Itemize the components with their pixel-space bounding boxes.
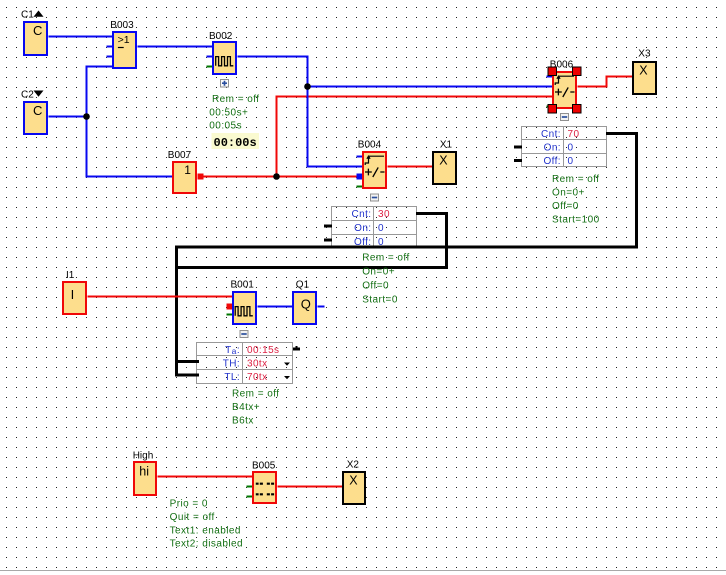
current value highlight B002 [212,133,260,149]
svg-text:Q: Q [301,297,311,312]
svg-text:30tx: 30tx [247,358,268,369]
svg-text:I: I [71,287,75,302]
svg-text:X3: X3 [638,49,651,60]
wire node A up to B003 input 4 [87,67,113,117]
svg-text:0: 0 [568,156,574,167]
svg-text:B007: B007 [168,150,192,161]
svg-text:X: X [439,154,448,168]
svg-text:I1: I1 [66,270,75,281]
svg-text:C1: C1 [21,9,34,20]
svg-text:On=0+: On=0+ [552,187,585,198]
svg-text:B6tx: B6tx [232,415,254,426]
svg-text:B001: B001 [231,280,255,291]
annotation B002 parameters [209,94,259,132]
svg-text:B002: B002 [209,31,233,42]
reference stub B006 table Off row [514,159,522,162]
reference stub B001 table Ta row [293,346,300,349]
expand button B002 [221,80,229,88]
reference line branch to B001 TH row [177,360,200,363]
parameter table B001 (Ta/TH/TL) [197,343,293,384]
selection handle B006 top-left [548,67,557,76]
pulse generator B001 [231,280,257,325]
svg-text:C: C [33,23,42,38]
svg-text:TL:: TL: [224,372,240,383]
constant High (hi) [133,450,156,495]
node B junction [304,83,311,90]
marker B007 output (red) [198,174,204,180]
svg-text:B4tx+: B4tx+ [232,402,260,413]
svg-text:00:50s+: 00:50s+ [209,108,248,119]
svg-text:B005: B005 [252,461,276,472]
svg-text:Prio = 0: Prio = 0 [170,499,208,510]
wire B005 output to X2 [278,486,343,488]
svg-text:hi: hi [139,464,149,478]
up-down counter B006 (selected) [550,60,576,109]
svg-text:00:00s: 00:00s [214,136,257,150]
selection handle B006 bottom-left [548,105,557,114]
svg-text:Rem = off: Rem = off [362,253,410,264]
stub B002 input 2 [207,56,213,58]
input I1 [63,270,86,314]
marker B001 input 2 (red) [227,304,234,310]
wire B001 output to Q1 [258,306,293,308]
stub B003 input 2 [107,46,113,48]
node A junction [83,113,90,120]
wire B004 output to X1 [388,166,433,168]
svg-text:Cnt:: Cnt: [541,129,561,140]
wire Q1 output stub [318,306,325,308]
reference stub B004 table Off row [324,239,332,242]
reference stub B004 table On row [324,225,332,228]
svg-text:1: 1 [184,163,191,177]
selection handle B006 bottom-right [573,105,582,114]
stub B004 input 4 (parameter) [357,186,363,188]
parameter table B004 (Cnt/On/Off) [332,207,417,248]
svg-text:On:: On: [354,223,371,234]
collapse button B001 [240,331,248,338]
svg-text:X1: X1 [440,139,453,150]
open connector X2 [343,460,365,505]
svg-text:70: 70 [568,129,580,140]
reference line B006 Cnt to B001 TL [177,134,637,376]
open connector X1 [433,139,456,184]
svg-text:00:05s: 00:05s [209,121,242,132]
annotation B001 parameters [232,389,280,427]
collapse button B006 [561,114,569,121]
svg-text:B004: B004 [358,139,382,150]
annotation B004 parameters [362,253,410,306]
svg-text:Text1: enabled: Text1: enabled [170,525,241,536]
svg-text:Start=100: Start=100 [552,214,600,225]
wire C2 to node A [49,116,87,118]
wire C1 to B003 input 1 [49,36,113,38]
svg-text:Rem = off: Rem = off [232,389,280,400]
wire node B down to B004 input 2 [308,87,363,167]
NOT gate B007 [168,150,196,193]
wire B002 output to node B [238,57,308,87]
wire hi to B005 input 1 [158,476,253,478]
svg-text:00:15s: 00:15s [247,345,279,356]
svg-text:30: 30 [378,209,390,220]
wire B007 output to node C to B004 input 3 [204,176,357,178]
dropdown arrow TH row [284,363,290,366]
svg-text:Q1: Q1 [296,280,310,291]
svg-text:Rem = off: Rem = off [212,94,260,105]
open connector X3 [633,49,656,95]
svg-text:Off:: Off: [543,156,561,167]
svg-text:Cnt:: Cnt: [352,209,372,220]
annotation B005 parameters [170,499,243,550]
stub B001 input 3 (parameter) [227,314,233,316]
svg-text:Quit = off: Quit = off [170,512,215,523]
reference line B004 Cnt to B001 TH [177,214,447,268]
svg-text:70tx: 70tx [247,372,268,383]
svg-text:0: 0 [378,223,384,234]
stub B006 input 4 (parameter) [547,106,553,108]
wire I1 to B001 input 1 [88,296,233,298]
svg-text:High: High [133,450,154,461]
input C1 cursor key block [21,9,47,55]
input C2 cursor key block [21,89,47,134]
OR gate B003 [110,20,136,68]
parameter table B006 (Cnt/On/Off) [522,127,607,167]
svg-text:Start=0: Start=0 [362,294,398,305]
wire B006 output to X3 [578,77,633,87]
svg-text:TH:: TH: [223,358,240,369]
svg-text:X2: X2 [347,460,360,471]
svg-text:Off=0: Off=0 [552,201,579,212]
reference stub B006 table On row [514,146,522,149]
up-down counter B004 [358,139,386,188]
selection handle B006 top-right [573,67,582,76]
svg-text:0: 0 [568,142,574,153]
dropdown arrow TL row [284,376,290,379]
collapse button B004 [371,194,379,201]
svg-text:C: C [33,103,42,118]
message text block B005 [252,461,276,503]
svg-text:On:: On: [544,142,561,153]
svg-text:X: X [639,64,648,78]
wire node C up to B006 input 3 [277,97,553,177]
svg-text:Rem = off: Rem = off [552,174,600,185]
stub B006 input 1 [547,76,553,78]
annotation B006 parameters [552,174,600,225]
wire B003 output to B002 input 1 [138,46,213,48]
svg-text:Off=0: Off=0 [362,280,389,291]
svg-text:C2: C2 [21,89,34,100]
svg-text:On=0+: On=0+ [362,267,395,278]
stub B002 input 3 (parameter) [207,66,213,68]
svg-text:X: X [349,474,358,488]
stub B004 input 1 [357,156,363,158]
svg-text:Ta:: Ta: [225,345,240,356]
wire node A down to B007 input [87,117,173,177]
pulse generator B002 [209,31,236,74]
output Q1 [293,280,316,325]
stub B005 input 2 (parameter) [247,486,253,488]
marker B004 input 3 (blue) [357,174,363,180]
node C junction [273,173,280,180]
stub B005 input 3 (parameter) [247,496,253,498]
svg-text:B003: B003 [110,20,134,31]
stub B003 input 3 [107,56,113,58]
svg-text:Text2: disabled: Text2: disabled [170,539,243,550]
svg-text:>1: >1 [118,34,130,46]
wire node B to B006 input 2 [308,86,553,88]
